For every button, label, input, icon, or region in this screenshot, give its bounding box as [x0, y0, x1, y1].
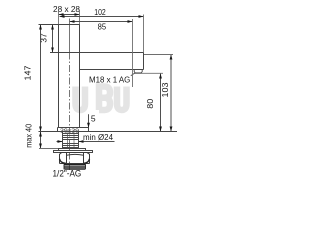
nut bottom chamfer arcs — [60, 159, 90, 164]
svg-text:min Ø24: min Ø24 — [83, 132, 113, 142]
thread stub below nut — [64, 165, 86, 170]
washer upper — [59, 149, 86, 151]
dim 28x28 line — [59, 14, 80, 16]
aerator — [134, 70, 142, 73]
extension line body top-left — [58, 11, 60, 25]
dim 5 leader arrow — [88, 114, 90, 127]
svg-text:85: 85 — [98, 22, 107, 32]
dim min O24 leader — [57, 141, 115, 143]
mounting surface line — [39, 131, 178, 133]
extension line washer top — [39, 148, 59, 150]
body step and spout top — [50, 52, 144, 54]
extension line body top-right — [79, 11, 81, 25]
extension line outlet top to 103 — [144, 54, 174, 56]
svg-text:5: 5 — [91, 114, 96, 124]
dim max 40 line — [40, 132, 42, 149]
svg-text:102: 102 — [94, 7, 106, 17]
threaded shank — [63, 132, 79, 149]
svg-text:37: 37 — [38, 33, 48, 43]
thread core lines — [68, 133, 75, 149]
leader M18 — [131, 73, 135, 76]
tap body column — [39, 25, 144, 128]
extension line outlet right up — [143, 15, 145, 53]
svg-text:80: 80 — [145, 98, 155, 108]
dim 103 line — [170, 55, 172, 132]
dim 147 line — [40, 25, 42, 132]
base plate — [58, 128, 89, 132]
watermark logo — [76, 87, 127, 111]
svg-text:max 40: max 40 — [23, 124, 33, 148]
spout arm bottom — [80, 69, 144, 71]
dim 80 line — [160, 74, 162, 132]
svg-text:147: 147 — [23, 65, 33, 80]
extension line aerator bottom to 80 — [135, 72, 164, 74]
svg-text:28 x 28: 28 x 28 — [53, 4, 80, 14]
centerline — [69, 19, 71, 53]
dim 102 line — [60, 16, 144, 18]
spout outlet right edge — [143, 53, 145, 70]
dim 37 line — [52, 25, 54, 53]
hex nut — [60, 153, 90, 164]
svg-text:103: 103 — [160, 82, 170, 97]
thread hatch — [63, 134, 79, 148]
dim 85 line — [70, 21, 133, 23]
svg-text:1/2"-AG: 1/2"-AG — [53, 168, 82, 178]
extension line outlet left — [132, 19, 134, 87]
svg-text:M18 x 1 AG: M18 x 1 AG — [89, 74, 130, 84]
washer lower — [54, 151, 93, 153]
